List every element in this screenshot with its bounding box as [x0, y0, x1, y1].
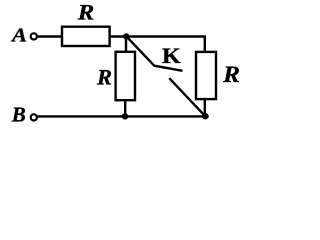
svg-text:R: R [96, 64, 112, 89]
junction node at top of R2 [123, 33, 129, 39]
wire R1 to top-right corner [109, 37, 205, 52]
wire R3 bottom lead [204, 100, 206, 117]
junction node at bottom of R3 [202, 113, 209, 120]
svg-text:R: R [77, 0, 95, 25]
wire B bottom rail [37, 115, 208, 117]
junction node at bottom of R2 [122, 113, 128, 119]
wire A terminal to resistor R1 [37, 35, 61, 37]
svg-text:K: K [162, 43, 181, 68]
switch K wire from top junction [127, 37, 155, 66]
switch K wire to bottom junction [169, 78, 205, 116]
svg-text:B: B [11, 103, 26, 127]
switch K blade (open) [154, 66, 183, 71]
resistor R1 [62, 27, 110, 46]
terminal B [31, 114, 37, 120]
svg-text:R: R [222, 62, 240, 87]
wire junction down to resistor R2 [125, 36, 127, 51]
resistor R2 (left vertical) [116, 52, 135, 100]
terminal A [31, 33, 37, 39]
wire R2 bottom lead [124, 100, 126, 116]
resistor R3 (right vertical) [196, 52, 216, 99]
svg-text:A: A [10, 25, 27, 47]
